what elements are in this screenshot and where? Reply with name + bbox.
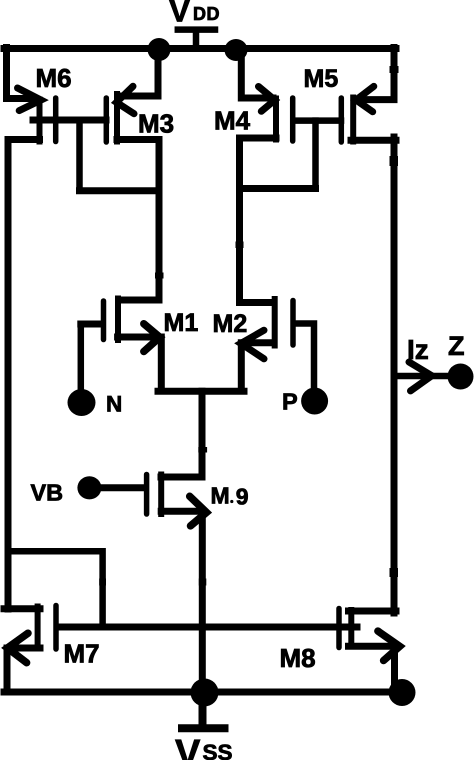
svg-text:M3: M3 [138,109,174,139]
wire shared gate M6-M3 [33,117,106,124]
junction tick on M3 drain vertical [155,273,164,279]
svg-text:VB: VB [31,480,64,506]
transistor M7 channel bar [35,607,41,649]
wire M6 drain + left edge [8,140,40,610]
wire gate tap left horizontal [80,187,159,194]
junction dot J2 (M4 source / rail) [225,39,248,61]
wire M2 gate lead to P [296,324,314,389]
transistor M8 channel bar [348,610,354,647]
wire M3 drain down to M1 source [117,140,159,301]
wire VB gate lead [95,484,144,491]
wire M2 drain down to tail [241,343,273,391]
stroke overlap right edge upper [390,66,399,73]
svg-text:M5: M5 [304,65,339,93]
transistor M8 source arrow [378,631,400,660]
junction tick on M9 source vertical [199,579,207,586]
svg-text:N: N [106,392,122,417]
wire Iz output tap [394,373,449,380]
wire tail vertical to M9 drain [161,391,202,477]
transistor M4 gate bar [290,98,296,141]
transistor M9 gate bar [144,475,150,515]
svg-text:M1: M1 [164,309,199,337]
transistor M4 channel bar [273,99,279,140]
wire M4 source from rail [241,49,273,98]
svg-text:M6: M6 [36,63,72,93]
transistor M3 channel bar [114,94,120,142]
transistor M1 gate bar [101,301,107,340]
wire M7 drain horizontal [4,605,40,612]
junction dot J1 (M3 source / rail) [148,38,171,61]
junction tick on tail vertical [198,447,207,453]
wire top VDD rail [4,45,396,52]
terminal dot P [301,388,328,415]
transistor M1 channel bar [115,299,121,341]
svg-text:DD: DD [193,4,220,24]
wire shared gate M4-M5 [296,117,341,124]
transistor M6 source arrow [18,88,42,111]
transistor M2 gate bar [290,301,296,346]
transistor M2 channel bar [272,299,278,346]
stroke overlap M5 drain vertical [390,156,399,166]
wire N input vertical [78,324,85,391]
svg-text:M7: M7 [64,639,100,669]
wire shared gate M7-M8 [59,624,357,631]
wire M1 drain down to tail [118,337,162,391]
wire top-left corner + M6 source [7,48,32,99]
svg-text:P: P [282,389,298,415]
transistor M6 channel bar [37,100,43,142]
wire gate tap right horizontal [240,185,316,192]
wire tail horizontal [158,388,244,395]
wire M3 source from rail [119,49,159,96]
wire M8 drain horizontal [349,608,397,615]
stroke overlap M8 drain vertical [390,568,399,577]
transistor M5 channel bar [350,98,356,142]
svg-text:SS: SS [203,740,233,760]
wire top-right corner + M5 source [357,48,394,100]
wire M7 source to bottom rail [7,648,40,690]
wire M5 drain to right edge [351,137,396,144]
transistor M2 drain arrow [241,330,264,359]
wire bottom VSS rail [4,689,402,696]
transistor M3 gate bar [104,98,110,142]
transistor M4 source arrow [259,87,275,112]
transistor M9 source arrow [190,496,207,526]
transistor M8 gate bar [336,609,342,648]
transistor M5 source arrow [356,86,374,111]
wire gate tap right vertical [312,121,319,189]
junction tick on left gate branch [99,579,106,586]
transistor M7 gate bar [53,606,59,650]
wire gate tap left vertical [76,120,83,191]
transistor M3 source arrow [117,86,135,113]
svg-text:M4: M4 [214,106,251,136]
svg-text:Iz: Iz [407,334,429,365]
terminal dot VB [77,476,101,499]
transistor M7 source arrow [7,633,28,663]
junction tick on M4 drain vertical [236,242,244,249]
svg-text:M2: M2 [213,310,248,338]
wire M1 gate lead [81,321,101,328]
wire right edge (M5 drain to M8 drain) [391,137,398,613]
transistor M5 gate bar [339,98,345,142]
terminal dot N [68,389,96,416]
wire M4 drain down to M2 source [240,138,277,303]
terminal dot Z [448,364,474,390]
wire M8 source to bottom rail dot [349,646,397,690]
junction dot bottom right [389,679,416,706]
wire left edge to M7 gate (top branch) [8,551,103,627]
svg-text:Z: Z [448,331,465,361]
transistor M6 gate bar [53,98,59,142]
arrow Iz current [409,362,432,391]
svg-text:9: 9 [236,484,249,510]
power symbol VDD [178,30,215,48]
svg-text:V: V [175,733,201,760]
transistor M1 drain arrow [144,324,160,352]
transistor M9 channel bar [158,475,164,515]
ground symbol VSS [182,692,225,728]
svg-text:M8: M8 [280,643,316,673]
svg-text:V: V [169,0,190,29]
junction dot VSS center [191,679,219,707]
wire M9 source down to VSS rail [161,511,202,690]
svg-text:M: M [211,483,230,509]
